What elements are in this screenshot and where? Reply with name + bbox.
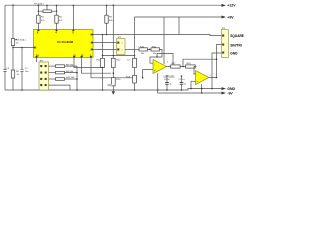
svg-text:R7 10k(L): R7 10k(L) xyxy=(34,3,44,5)
svg-text:C6 1u: C6 1u xyxy=(164,79,171,81)
svg-text:R4 10k(L): R4 10k(L) xyxy=(16,39,26,41)
svg-text:-: - xyxy=(197,73,198,77)
svg-text:C7 1u: C7 1u xyxy=(179,79,186,81)
svg-text:+: + xyxy=(197,80,199,84)
svg-text:SIN/TRI: SIN/TRI xyxy=(230,44,241,48)
svg-text:+9V: +9V xyxy=(227,15,234,19)
svg-text:GND: GND xyxy=(227,87,235,91)
svg-text:-: - xyxy=(154,62,155,66)
svg-text:GND: GND xyxy=(230,52,238,56)
svg-text:2: 2 xyxy=(122,49,123,51)
svg-text:U1 ICL8038: U1 ICL8038 xyxy=(57,40,74,44)
svg-text:SQUARE: SQUARE xyxy=(230,34,244,38)
svg-text:1: 1 xyxy=(122,43,123,45)
svg-text:+: + xyxy=(154,69,156,73)
svg-text:-9V: -9V xyxy=(227,91,233,95)
svg-text:+12V: +12V xyxy=(227,3,236,7)
